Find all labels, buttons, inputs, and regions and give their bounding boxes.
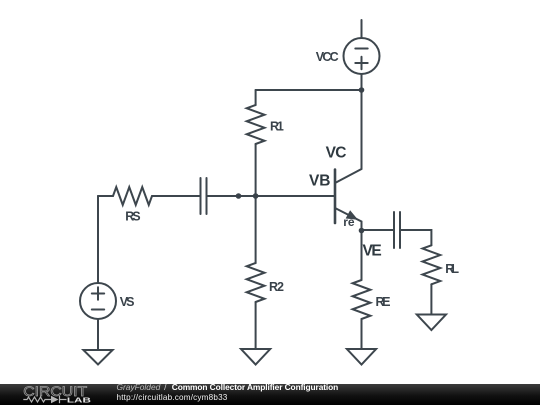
wire RL to ground <box>430 284 432 314</box>
footer bar <box>0 384 540 405</box>
svg-text:RL: RL <box>445 262 459 276</box>
resistor R2 <box>247 263 265 302</box>
footer caption line 1 <box>117 384 339 392</box>
svg-text:VCC: VCC <box>316 50 339 64</box>
voltage source VS <box>80 283 116 319</box>
wire RS to C1 <box>152 195 201 197</box>
svg-text:LAB: LAB <box>67 395 92 404</box>
wire R1 top lead <box>255 90 257 105</box>
ground for VS <box>83 350 112 365</box>
footer caption line 2 <box>117 394 228 402</box>
junction dot base node <box>253 193 259 199</box>
wire VE to RE <box>361 231 363 281</box>
svg-text:RE: RE <box>376 295 391 309</box>
svg-text:VB: VB <box>309 173 330 190</box>
wire C1 to base <box>207 195 336 197</box>
capacitor C2 <box>394 212 400 248</box>
ground for RL <box>417 315 446 331</box>
svg-text:VS: VS <box>120 295 135 309</box>
ground for R2 <box>241 349 270 365</box>
resistor RE <box>353 280 371 319</box>
svg-text:R2: R2 <box>269 280 284 294</box>
ground for RE <box>347 349 376 365</box>
svg-text:R1: R1 <box>270 119 284 133</box>
wire emitter to VE node <box>361 222 363 231</box>
CircuitLab logo <box>0 384 110 405</box>
wire VS riser <box>97 196 99 283</box>
wire R2 to ground <box>255 302 257 349</box>
wire VE to C2 <box>362 229 395 231</box>
junction dot cap node <box>236 193 242 199</box>
resistor RL <box>423 245 441 284</box>
junction dot VE node <box>359 228 365 234</box>
wire RE to ground <box>361 319 363 349</box>
junction dot VCC node <box>359 87 365 93</box>
wire VCC top lead <box>361 20 363 38</box>
resistor R1 <box>247 105 265 144</box>
wire RS left lead <box>98 195 113 197</box>
resistor RS <box>113 187 152 205</box>
wire VS to ground <box>97 319 99 350</box>
transistor Q1 <box>335 169 362 223</box>
voltage source VCC <box>344 38 380 74</box>
svg-text:RS: RS <box>125 210 140 224</box>
wire C2 to RL <box>400 230 431 245</box>
wire collector riser <box>361 90 363 169</box>
wire R2 top lead <box>255 196 257 263</box>
svg-text:re: re <box>343 215 355 229</box>
wire R1 bottom lead <box>255 144 257 196</box>
capacitor C1 <box>201 178 207 214</box>
wire top rail <box>256 89 362 91</box>
svg-text:VC: VC <box>326 145 347 162</box>
svg-text:VE: VE <box>363 242 382 259</box>
wire VCC bottom to rail <box>361 74 363 90</box>
